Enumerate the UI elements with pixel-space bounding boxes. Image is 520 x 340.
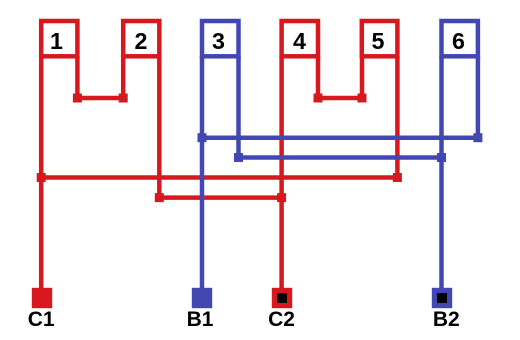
wire blue bus2 coil3 right to B2 lead	[239, 155, 442, 160]
junction red bus at coil5 lead	[393, 173, 402, 182]
junction blue bus at coil3 lead	[198, 133, 207, 142]
wire coil1 right lead down	[75, 56, 80, 98]
terminal C2 black center	[277, 293, 287, 303]
wire coil3 left lead to B1	[200, 56, 205, 290]
wire coil6 right lead down	[476, 56, 481, 138]
svg-text:5: 5	[372, 28, 385, 54]
wire coil5 right lead down	[395, 56, 400, 178]
wire coil2 left lead down	[121, 56, 126, 98]
junction coil2 jumper right	[119, 94, 128, 103]
wire coil3 right lead down	[236, 56, 241, 158]
terminal B2 black center	[437, 293, 447, 303]
wire coil1 left lead to C1	[39, 56, 44, 290]
svg-text:6: 6	[452, 28, 465, 54]
coil 6 box	[442, 21, 478, 56]
junction blue bus2 at coil6 left lead	[437, 153, 446, 162]
svg-text:2: 2	[135, 28, 148, 54]
wire jumper coil4 to coil5	[318, 96, 362, 101]
coil 5 box	[362, 21, 398, 56]
terminal B1	[192, 288, 212, 308]
wire coil5 left lead down	[360, 56, 365, 98]
junction blue bus at coil6 right lead	[473, 133, 482, 142]
junction coil4 jumper left	[314, 94, 323, 103]
svg-text:B1: B1	[187, 308, 214, 331]
wire red bus coil5 to C1 lead	[41, 175, 397, 180]
junction coil5 jumper right	[358, 94, 367, 103]
svg-text:3: 3	[212, 28, 225, 54]
svg-text:C2: C2	[268, 308, 295, 331]
coil 1 box	[41, 21, 77, 56]
wire red bus coil2 to C2 node	[159, 195, 281, 200]
junction coil1 jumper left	[73, 94, 82, 103]
terminal B2	[432, 288, 452, 308]
junction red bus2 at coil2 lead	[155, 193, 164, 202]
coil 2 box	[123, 21, 159, 56]
svg-text:4: 4	[293, 28, 306, 54]
coil 4 box	[282, 21, 318, 56]
wire coil4 right lead down	[316, 56, 321, 98]
wire blue bus coil3 to coil6 right	[202, 135, 478, 140]
coil 3 box	[202, 21, 239, 56]
terminal C2	[272, 288, 292, 308]
junction red bus on C1 lead	[37, 173, 46, 182]
wire jumper coil1 to coil2	[77, 96, 123, 101]
wire coil2 right lead down	[157, 56, 162, 198]
terminal C1	[32, 288, 52, 308]
svg-text:C1: C1	[28, 308, 55, 331]
svg-text:1: 1	[50, 28, 63, 54]
wire coil6 left lead to B2	[439, 56, 444, 290]
junction blue bus2 at coil3 right lead	[234, 153, 243, 162]
svg-text:B2: B2	[433, 308, 460, 331]
wire coil4 left lead to C2	[279, 56, 284, 290]
junction red bus2 at C2 lead	[277, 193, 286, 202]
